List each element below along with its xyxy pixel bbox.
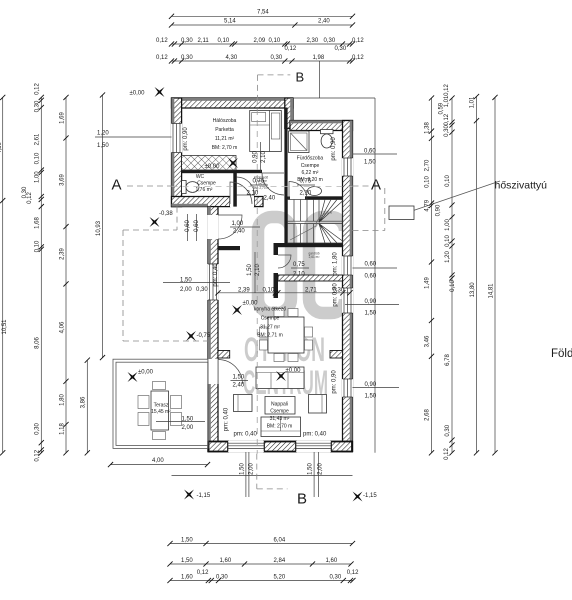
- svg-text:2,00: 2,00: [182, 425, 194, 431]
- svg-text:2,10: 2,10: [255, 264, 261, 276]
- svg-text:1,50: 1,50: [364, 160, 376, 166]
- door upper hall: [230, 182, 252, 204]
- svg-text:-1,15: -1,15: [363, 493, 377, 499]
- svg-text:11,21 m²: 11,21 m²: [215, 136, 235, 142]
- wardrobe: [182, 156, 236, 171]
- svg-text:1,76 m²: 1,76 m²: [196, 187, 213, 193]
- svg-text:2,40: 2,40: [318, 19, 330, 25]
- right chain C1: [425, 95, 435, 455]
- svg-text:1,50: 1,50: [181, 538, 193, 544]
- right window dim W-A: [353, 149, 398, 166]
- svg-text:0,10: 0,10: [35, 240, 41, 252]
- svg-text:14,81: 14,81: [488, 283, 494, 299]
- svg-text:Csempe: Csempe: [301, 163, 320, 169]
- west wall upper block: [172, 98, 182, 207]
- svg-text:0,30: 0,30: [196, 287, 208, 293]
- svg-text:2,61 m²: 2,61 m²: [309, 255, 320, 259]
- north wall bathroom block: [290, 121, 353, 131]
- svg-text:BM: 2,71 m: BM: 2,71 m: [257, 333, 283, 339]
- svg-text:15,45 m²: 15,45 m²: [151, 409, 171, 415]
- svg-text:-0,38: -0,38: [159, 211, 173, 217]
- svg-text:pm: 0,40: pm: 0,40: [234, 432, 258, 438]
- svg-text:2,00: 2,00: [180, 287, 192, 293]
- svg-text:4,30: 4,30: [0, 142, 3, 154]
- svg-text:2,09: 2,09: [254, 38, 266, 44]
- svg-text:0,10: 0,10: [445, 235, 451, 247]
- partition bathroom south wall: [305, 196, 343, 199]
- right window dim W-D: [353, 382, 400, 400]
- svg-text:±0,00: ±0,00: [130, 91, 146, 97]
- window glyphs: [172, 124, 353, 452]
- hall window dim: [163, 278, 230, 294]
- svg-text:3,86: 3,86: [81, 396, 87, 408]
- top dim row detail 1: [156, 38, 364, 52]
- svg-text:1,68: 1,68: [35, 217, 41, 229]
- staircase: [287, 200, 342, 244]
- svg-text:1,00: 1,00: [445, 219, 451, 231]
- svg-text:13,80: 13,80: [470, 282, 476, 298]
- svg-text:1,50: 1,50: [240, 463, 246, 475]
- south wall upper block: [172, 197, 231, 207]
- svg-text:0,75: 0,75: [253, 179, 265, 185]
- right line R0 with canopy: [293, 61, 375, 453]
- svg-text:Hálószoba: Hálószoba: [213, 118, 237, 124]
- svg-text:2,39: 2,39: [59, 248, 65, 260]
- bedroom door arc: [262, 173, 284, 195]
- south wall corner pier right: [331, 442, 352, 452]
- svg-text:1,50: 1,50: [97, 143, 109, 149]
- svg-text:pm: 0,90: pm: 0,90: [332, 370, 338, 394]
- svg-text:0,30: 0,30: [181, 55, 193, 61]
- section B-B: [258, 74, 291, 76]
- svg-text:0,12: 0,12: [285, 46, 297, 52]
- upper floor dashed contour left: [123, 207, 208, 341]
- svg-text:1,00: 1,00: [232, 221, 244, 227]
- terrace table: [138, 382, 182, 440]
- WC door arc: [237, 177, 255, 195]
- svg-text:2,10: 2,10: [300, 191, 312, 197]
- svg-text:0,60: 0,60: [185, 220, 191, 232]
- svg-text:1,20: 1,20: [97, 131, 109, 137]
- svg-text:0,30: 0,30: [271, 55, 283, 61]
- east wall: [343, 121, 353, 452]
- svg-text:6,22 m²: 6,22 m²: [302, 170, 319, 176]
- svg-text:0,30: 0,30: [324, 38, 336, 44]
- svg-text:31,43 m²: 31,43 m²: [270, 416, 290, 422]
- window west hall: [208, 264, 218, 300]
- south wall upper block right part: [254, 197, 263, 207]
- svg-text:1,01: 1,01: [470, 96, 476, 108]
- svg-text:2,10: 2,10: [247, 191, 259, 197]
- south wall: [208, 442, 353, 452]
- watermark OC Otthon Centrum logo: [243, 217, 345, 402]
- left chain L2: [22, 83, 44, 462]
- partition bedroom south wall: [182, 170, 262, 173]
- svg-text:0,60: 0,60: [365, 262, 377, 268]
- terrace outline: [113, 359, 208, 448]
- bathroom shower: [289, 131, 310, 153]
- furniture: [138, 111, 333, 440]
- svg-text:2,70: 2,70: [425, 159, 431, 171]
- svg-text:0,10: 0,10: [450, 280, 456, 292]
- svg-text:0,12: 0,12: [156, 38, 168, 44]
- notch step wall: [285, 98, 293, 129]
- WC toilet: [182, 181, 199, 194]
- svg-text:2,71: 2,71: [305, 288, 317, 294]
- svg-text:0,30: 0,30: [330, 575, 342, 581]
- left chain L1: [0, 95, 8, 456]
- svg-text:A: A: [112, 177, 122, 194]
- west wall lower block: [208, 207, 218, 452]
- terrace door arc: [218, 360, 243, 385]
- right window dim W-C: [345, 299, 399, 317]
- window east kitchen: [343, 288, 353, 313]
- svg-text:1,50: 1,50: [182, 417, 194, 423]
- svg-text:3,46: 3,46: [425, 335, 431, 347]
- svg-text:0,30: 0,30: [335, 46, 347, 52]
- svg-text:1,50: 1,50: [365, 311, 377, 317]
- bathroom door arc: [289, 182, 307, 200]
- svg-text:2,84: 2,84: [274, 558, 286, 564]
- svg-text:2,40: 2,40: [233, 229, 245, 235]
- bed: [250, 111, 282, 152]
- svg-text:0,12: 0,12: [444, 113, 450, 125]
- section A-A: [127, 185, 172, 187]
- living sofa bottom: [261, 417, 301, 437]
- svg-text:1,20: 1,20: [445, 251, 451, 263]
- svg-text:-1,15: -1,15: [197, 493, 211, 499]
- svg-text:BM: 2,70 m: BM: 2,70 m: [267, 424, 293, 430]
- svg-text:0,90: 0,90: [436, 204, 442, 216]
- svg-text:Nappali: Nappali: [271, 402, 288, 408]
- partition hall north stub: [218, 246, 240, 250]
- svg-text:2,00: 2,00: [318, 463, 324, 475]
- dining table: [260, 309, 313, 362]
- heat pump: [389, 180, 547, 220]
- partition WC east wall: [233, 170, 237, 207]
- interior partitions: [182, 108, 343, 359]
- partition understair west wall: [274, 243, 279, 255]
- right chain C2: [436, 84, 457, 460]
- svg-text:0,12: 0,12: [352, 38, 364, 44]
- svg-text:0,90: 0,90: [365, 299, 377, 305]
- partition stair south wall: [274, 243, 343, 247]
- svg-text:2,30: 2,30: [307, 38, 319, 44]
- right chain C4 14,81: [488, 95, 497, 456]
- svg-text:pm: 0,40: pm: 0,40: [303, 432, 327, 438]
- understair door arc: [278, 255, 291, 268]
- svg-text:0,30: 0,30: [444, 125, 450, 137]
- ground line below: [172, 474, 353, 476]
- south wall mid pier: [264, 442, 296, 452]
- svg-text:0,12: 0,12: [35, 449, 41, 461]
- living armchair right: [309, 395, 327, 414]
- svg-text:0,30: 0,30: [35, 423, 41, 435]
- svg-text:0,60: 0,60: [194, 220, 200, 232]
- svg-text:2,10: 2,10: [293, 272, 305, 278]
- bathroom toilet: [321, 130, 334, 149]
- svg-text:1,50: 1,50: [365, 394, 377, 400]
- window and door gaps: [171, 124, 353, 453]
- living armchair left: [234, 395, 253, 412]
- svg-text:0,90: 0,90: [365, 382, 377, 388]
- svg-text:pm: 0,90: pm: 0,90: [183, 127, 189, 151]
- svg-text:31,27 m²: 31,27 m²: [260, 325, 280, 331]
- left chain L4 3,86: [81, 358, 90, 456]
- svg-text:0,90: 0,90: [253, 151, 259, 163]
- north wall bedroom block: [172, 98, 294, 108]
- svg-text:1,50: 1,50: [233, 375, 245, 381]
- svg-text:0,12: 0,12: [347, 570, 359, 576]
- svg-text:BM: 2,70 m: BM: 2,70 m: [212, 145, 238, 151]
- svg-text:0,10: 0,10: [425, 176, 431, 188]
- svg-text:2,11: 2,11: [198, 38, 210, 44]
- level stars: [123, 82, 378, 506]
- svg-text:konyha étkező: konyha étkező: [254, 307, 286, 313]
- svg-text:0,30: 0,30: [35, 100, 41, 112]
- top dim row 7,54: [169, 10, 355, 19]
- window east living: [343, 379, 353, 397]
- left window dim 1,20 1,50: [95, 131, 172, 150]
- right window dim W-B: [353, 262, 398, 280]
- svg-text:pm: 0,90: pm: 0,90: [331, 137, 337, 161]
- svg-text:4,30: 4,30: [226, 55, 238, 61]
- window east bath: [343, 158, 353, 176]
- south window dim pair right: [308, 452, 324, 497]
- svg-text:B: B: [297, 491, 307, 508]
- svg-text:0,10: 0,10: [218, 38, 230, 44]
- bottom dim row A: [167, 538, 355, 547]
- south wall corner pier left: [209, 442, 229, 452]
- svg-text:2,40: 2,40: [233, 383, 245, 389]
- svg-text:7,54: 7,54: [257, 10, 269, 16]
- svg-text:1,60: 1,60: [220, 558, 232, 564]
- right chain C3 13,80: [470, 94, 479, 456]
- svg-text:1,49: 1,49: [425, 277, 431, 289]
- svg-text:0,10: 0,10: [35, 152, 41, 164]
- svg-text:hőszivattyú: hőszivattyú: [495, 180, 548, 192]
- section lines and letters: [112, 70, 385, 508]
- svg-text:±0,00: ±0,00: [205, 164, 221, 170]
- svg-text:0,10: 0,10: [263, 288, 275, 294]
- svg-text:0,12: 0,12: [156, 55, 168, 61]
- svg-text:0,75: 0,75: [300, 179, 312, 185]
- svg-text:0,12: 0,12: [35, 83, 41, 95]
- svg-text:2,10: 2,10: [261, 151, 267, 163]
- svg-text:0,75: 0,75: [293, 262, 305, 268]
- svg-text:1,00: 1,00: [35, 171, 41, 183]
- svg-text:8,06: 8,06: [35, 337, 41, 349]
- svg-text:-0,75: -0,75: [197, 333, 211, 339]
- living sofa top: [256, 367, 304, 389]
- svg-text:1,98: 1,98: [313, 55, 325, 61]
- svg-text:Fürdőszoba: Fürdőszoba: [297, 156, 324, 162]
- bathroom washbasin: [308, 187, 322, 196]
- svg-text:4,00: 4,00: [152, 458, 164, 464]
- svg-text:1,38: 1,38: [425, 122, 431, 134]
- svg-text:2,61: 2,61: [35, 133, 41, 145]
- living north wall right stub: [330, 351, 343, 359]
- svg-text:3,69: 3,69: [59, 174, 65, 186]
- top dim row detail 2: [156, 55, 364, 64]
- svg-text:1,01: 1,01: [444, 95, 450, 107]
- svg-text:1,60: 1,60: [181, 575, 193, 581]
- svg-text:pm: 1,80: pm: 1,80: [333, 252, 339, 276]
- living north wall left stub: [218, 351, 230, 359]
- svg-text:±0,00: ±0,00: [286, 368, 302, 374]
- svg-text:0,30: 0,30: [445, 424, 451, 436]
- svg-text:A: A: [371, 177, 381, 194]
- svg-text:1,50: 1,50: [308, 463, 314, 475]
- svg-text:0,12: 0,12: [444, 448, 450, 460]
- svg-text:10,51: 10,51: [2, 319, 8, 335]
- south window dim pair left: [240, 452, 255, 497]
- building outer walls: [172, 98, 353, 452]
- svg-text:0,10: 0,10: [445, 175, 451, 187]
- svg-text:0,30: 0,30: [181, 38, 193, 44]
- bottom dim row B: [167, 558, 353, 567]
- svg-text:5,14: 5,14: [224, 19, 236, 25]
- svg-text:0,60: 0,60: [365, 274, 377, 280]
- partition bedroom/bathroom + stair west wall: [284, 108, 287, 244]
- svg-text:pm: 0,40: pm: 0,40: [224, 407, 230, 431]
- svg-text:2,39: 2,39: [238, 288, 250, 294]
- entry door arc west wall: [218, 215, 242, 239]
- terrace 4,00 dim: [108, 458, 210, 467]
- svg-text:0,12: 0,12: [444, 84, 450, 96]
- svg-text:1,18: 1,18: [59, 423, 65, 435]
- svg-text:1,69: 1,69: [59, 112, 65, 124]
- small door/parapet labels: [183, 127, 339, 438]
- interior dim line kitchen: [215, 288, 352, 296]
- bottom dim row C: [167, 570, 359, 583]
- svg-text:0,60: 0,60: [364, 149, 376, 155]
- svg-text:6,78: 6,78: [445, 354, 451, 366]
- hall-kitchen opening dim: [247, 252, 261, 293]
- svg-text:2,68: 2,68: [425, 409, 431, 421]
- svg-text:Csempe: Csempe: [270, 409, 289, 415]
- top dim row 5,14 2,40: [169, 19, 355, 28]
- svg-text:±0,00: ±0,00: [138, 370, 154, 376]
- window east understair: [343, 256, 353, 275]
- terrace table dim: [156, 417, 205, 432]
- svg-text:Föld: Föld: [551, 348, 572, 360]
- svg-text:6,04: 6,04: [274, 538, 286, 544]
- living coffee table: [265, 397, 295, 415]
- svg-text:1,80: 1,80: [59, 394, 65, 406]
- svg-text:pm: 0,90: pm: 0,90: [333, 283, 339, 307]
- svg-text:1,60: 1,60: [326, 558, 338, 564]
- svg-text:0,10: 0,10: [269, 38, 281, 44]
- svg-text:Csempe: Csempe: [197, 181, 216, 187]
- svg-text:0,59: 0,59: [439, 102, 445, 114]
- svg-text:4,06: 4,06: [59, 321, 65, 333]
- svg-text:2,00: 2,00: [249, 463, 255, 475]
- svg-text:0,12: 0,12: [27, 192, 33, 204]
- svg-text:0,12: 0,12: [352, 55, 364, 61]
- svg-text:1,50: 1,50: [180, 278, 192, 284]
- svg-text:Terasz: Terasz: [154, 403, 169, 409]
- window south right: [296, 442, 331, 452]
- svg-text:1,50: 1,50: [181, 558, 193, 564]
- partition understair south wall: [278, 275, 343, 281]
- svg-text:Parketta: Parketta: [215, 127, 234, 133]
- svg-text:B: B: [296, 70, 305, 85]
- doors: [218, 173, 307, 384]
- svg-text:1,50: 1,50: [247, 264, 253, 276]
- svg-text:pm: 0,40: pm: 0,40: [213, 263, 219, 287]
- window W1 west bedroom: [172, 124, 182, 153]
- left chain L5 10,93: [96, 92, 105, 360]
- svg-text:10,93: 10,93: [96, 220, 102, 236]
- window south left: [228, 442, 264, 452]
- svg-text:Csempe: Csempe: [261, 316, 280, 322]
- svg-text:BM: 2,70 m: BM: 2,70 m: [253, 186, 270, 190]
- svg-text:WC: WC: [196, 174, 205, 180]
- svg-text:0,12: 0,12: [197, 570, 209, 576]
- svg-text:0,30: 0,30: [216, 575, 228, 581]
- svg-text:2,40: 2,40: [264, 196, 276, 202]
- bedroom door dim: [253, 142, 267, 172]
- upper floor dashed contour right: [353, 188, 385, 231]
- svg-text:5,20: 5,20: [274, 575, 286, 581]
- room labels: [151, 118, 323, 430]
- left chain L3: [59, 95, 68, 456]
